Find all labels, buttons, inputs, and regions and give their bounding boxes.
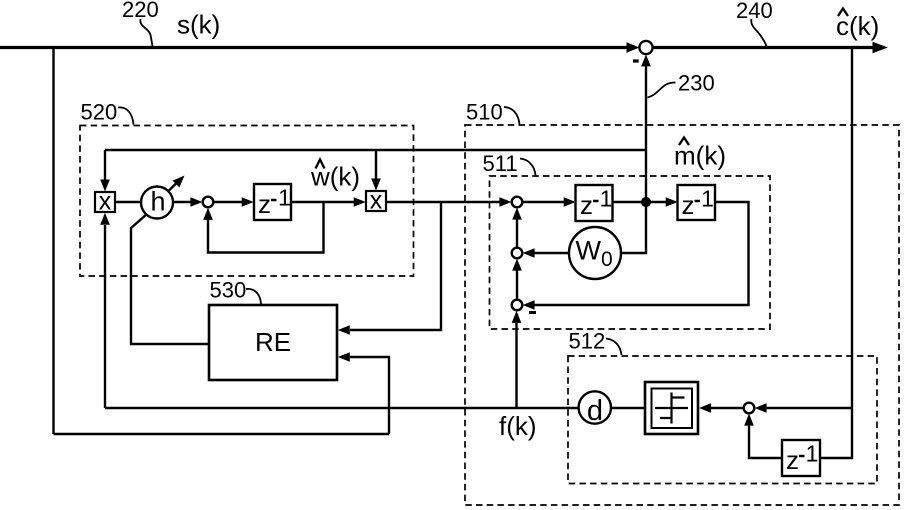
wire 520 feedback loop [208, 202, 324, 253]
leader 220 [140, 19, 152, 46]
svg-text:511: 511 [483, 151, 518, 176]
z-1 A superscript minus [593, 200, 599, 203]
svg-text:c(k): c(k) [836, 11, 879, 41]
wire drop into multiplier X1 [104, 150, 106, 180]
wire f horizontal [105, 407, 579, 409]
wire up to RE input 2 [350, 357, 389, 434]
leader 512 [606, 339, 622, 356]
dashed box 520 [80, 126, 414, 277]
wire RE to h control [131, 214, 209, 344]
wire node N4 to quantizer [711, 407, 744, 409]
leader 230 [648, 83, 676, 98]
hat of w-hat [316, 160, 325, 169]
wire f vertical into X1 bottom [104, 225, 106, 408]
wire W0 to node N2 [534, 252, 570, 254]
node N4 [744, 403, 755, 414]
arrow down into X2 [371, 179, 381, 191]
svg-text:m(k): m(k) [674, 141, 726, 171]
svg-text:x: x [370, 187, 383, 215]
arrow into z-1 A [564, 197, 576, 207]
delay z-1 B (511) [678, 185, 716, 220]
wire s(k) tap vertical left [52, 48, 54, 435]
delay z-1 A (511) [576, 185, 613, 221]
wire h to node N5 [173, 201, 191, 203]
z-1 (520) superscript minus [271, 199, 277, 202]
dashed box 512 [568, 356, 877, 484]
wire z-1 (512) output to node N4 [749, 425, 782, 458]
arrow h to node N5 [190, 197, 202, 207]
delay z-1 (520) [254, 184, 291, 220]
svg-text:d: d [587, 395, 603, 427]
quantizer step symbol [655, 393, 688, 424]
wire z-1 (520) to X2 [291, 201, 354, 203]
multiplier X1 [95, 192, 115, 212]
svg-text:240: 240 [736, 0, 773, 23]
wire node N3 to node N2 [516, 270, 518, 300]
svg-text:z: z [786, 445, 799, 475]
svg-text:w(k): w(k) [310, 162, 360, 192]
leader 530 [246, 289, 261, 304]
multiplier X2 [366, 191, 386, 211]
arrow into RE input 1 [338, 325, 350, 335]
arrow into node N2 from N3 [512, 259, 522, 271]
gain circle h [141, 187, 173, 219]
hat of c-hat [838, 9, 848, 17]
svg-text:0: 0 [601, 248, 613, 271]
wire node N1 to z-1 A [522, 201, 564, 203]
arrow into node N1 from N2 [512, 208, 522, 220]
arrow W0 into node N2 [523, 248, 535, 258]
arrow into node N1 [499, 197, 511, 207]
wire f(k) up to node N3 [515, 323, 517, 408]
delay z-1 (512) [782, 440, 820, 476]
arrow into RE input 2 [338, 352, 350, 362]
arrow into z-1 (520) [242, 197, 254, 207]
minus sign at node N3 [529, 311, 536, 314]
arrow f up into X1 [100, 213, 110, 225]
arrow c-hat output [873, 42, 889, 54]
arrow feedback up into node N5 [203, 208, 213, 220]
minus sign at subtractor [633, 59, 639, 62]
wire tap down to RE input 1 [350, 202, 441, 330]
svg-text:230: 230 [678, 71, 715, 96]
wire c-hat feedback vertical [821, 48, 853, 459]
arrow into quantizer [699, 403, 711, 413]
svg-text:f(k): f(k) [499, 411, 537, 441]
leader 510 [504, 107, 520, 125]
node N1 [512, 197, 523, 208]
node N5 (520 adder) [203, 197, 214, 208]
wire node N2 to node N1 [516, 219, 518, 248]
arrow into node N4 [755, 403, 767, 413]
hat of m-hat [679, 138, 689, 146]
wire m-hat feedback horizontal [105, 149, 646, 151]
junction dot m-hat [642, 198, 650, 206]
dashed box 510 [465, 125, 899, 505]
svg-text:510: 510 [466, 100, 503, 125]
circle W0 [569, 227, 621, 279]
dashed box 511 [490, 176, 771, 329]
wire tap to W0 [621, 202, 647, 253]
wire X1 to h [116, 201, 142, 203]
svg-text:1: 1 [701, 186, 714, 212]
arrow m-hat into subtractor [641, 54, 651, 66]
leader 511 [520, 159, 536, 176]
wire drop into multiplier X2 [375, 150, 377, 179]
leader 240 [751, 19, 766, 47]
svg-text:520: 520 [81, 100, 118, 125]
wire c-hat to node N4 [766, 407, 852, 409]
arrow into X2 [354, 197, 366, 207]
arrow z-1 (512) up into node N4 [744, 414, 754, 426]
svg-text:s(k): s(k) [177, 10, 220, 40]
svg-text:h: h [150, 187, 165, 217]
z-1 (512) superscript minus [799, 455, 805, 458]
node N2 [512, 248, 523, 259]
subtractor node 230 top [639, 41, 652, 54]
wire m-hat vertical 230 [645, 66, 647, 202]
wire h adjust arrow shaft [160, 183, 177, 200]
wire X2 to node N1 [386, 201, 500, 203]
wire z-1 A to z-1 B [613, 201, 666, 203]
svg-text:1: 1 [600, 186, 613, 212]
svg-text:z: z [682, 190, 695, 220]
z-1 B superscript minus [695, 200, 701, 203]
svg-text:1: 1 [806, 441, 819, 467]
svg-text:z: z [258, 189, 271, 219]
wire top line from subtractor to output arrow [653, 46, 873, 49]
node N3 [512, 300, 523, 311]
wire s(k) top line left of subtractor [0, 46, 628, 49]
svg-text:z: z [580, 190, 593, 220]
arrow into subtractor [627, 42, 640, 52]
wire bottom s(k) horizontal [54, 433, 390, 435]
svg-text:W: W [576, 236, 602, 266]
arrow down into X1 [100, 180, 110, 192]
wire node N5 to z-1 (520) [213, 201, 242, 203]
quantizer outer box [645, 382, 698, 434]
svg-text:530: 530 [210, 278, 247, 303]
arrowhead h adjust [173, 176, 185, 188]
svg-text:220: 220 [122, 0, 159, 22]
circle d [579, 391, 611, 423]
svg-text:RE: RE [255, 327, 291, 357]
svg-text:1: 1 [278, 185, 291, 211]
wire quantizer to d [611, 407, 645, 409]
arrow into z-1 B [666, 197, 678, 207]
arrow into node N3 from z-1 B [523, 300, 535, 310]
svg-text:x: x [99, 188, 112, 216]
quantizer inner box [652, 389, 693, 429]
leader 520 [118, 107, 134, 124]
svg-text:512: 512 [569, 329, 606, 354]
wire z-1 B output loop to node N3 [534, 202, 749, 305]
block RE (530) [209, 305, 337, 380]
arrow f(k) into node N3 [512, 311, 522, 323]
